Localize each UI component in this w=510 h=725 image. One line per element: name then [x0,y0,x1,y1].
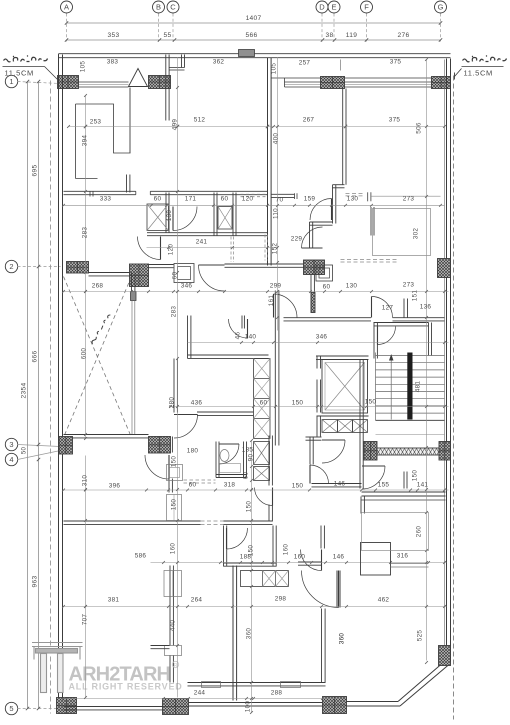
svg-text:141: 141 [417,482,429,489]
dimline x277 [277,58,279,331]
dim text 375 [389,117,401,124]
dim text 188 [240,554,252,561]
node grid-F bubble [361,1,373,13]
svg-text:298: 298 [275,596,287,603]
door hall kitchen west [274,294,298,318]
door wc 171 [173,207,197,231]
svg-text:268: 268 [92,283,104,290]
wall bath318 south [216,475,247,478]
dim text 512 [194,117,206,124]
dim text 150 [246,501,253,513]
shaft lower2 [254,467,270,481]
door 436 [174,415,198,439]
svg-text:360: 360 [339,633,346,645]
wall 302 vert [371,207,374,236]
column lightwell-east 34 [149,437,171,454]
dim text 159 [304,196,316,203]
stair treads [376,353,445,421]
svg-text:60: 60 [189,482,197,489]
wall hall east stub [311,275,315,313]
dimline y126 [69,125,445,128]
dim text 136 [420,304,432,311]
svg-text:499: 499 [172,119,179,131]
wall 260room west [361,497,364,514]
svg-text:707: 707 [82,614,89,626]
duct grid2 [174,264,194,283]
label joint-left 11.5CM [5,69,34,78]
dim text 160 [294,554,306,561]
dim text 119 [346,32,357,39]
svg-text:180: 180 [187,448,199,455]
svg-text:160: 160 [170,543,177,555]
svg-text:436: 436 [191,400,203,407]
wall bottom right [347,702,401,707]
svg-text:140: 140 [245,334,257,341]
dim text 707 [82,614,89,626]
dim row 1407 line [65,21,442,24]
dim text 310 [82,475,89,487]
svg-text:525: 525 [417,630,424,642]
svg-text:1407: 1407 [246,15,262,22]
svg-text:146: 146 [333,554,345,561]
svg-text:127: 127 [382,305,394,312]
wall corr east seg [310,437,313,465]
dim text 481 [415,381,422,393]
dim text 2354 [21,383,28,399]
closet 264 b [165,646,182,656]
dim text 151 [412,290,419,302]
wall 436 west [174,359,177,413]
dim text 436 [191,400,203,407]
door 396 [145,455,169,479]
svg-text:150: 150 [246,501,253,513]
stair center wall [407,353,412,420]
column stairwall right [439,442,451,461]
svg-text:375: 375 [389,117,401,124]
svg-text:130: 130 [347,196,359,203]
wall bath318 west [216,442,219,478]
wall corr west [275,291,279,446]
dim text 333 [100,196,112,203]
wall chamfer [398,661,449,706]
dim text 150 [412,470,419,482]
dim text 273 [403,282,415,289]
svg-text:A: A [64,3,69,12]
svg-text:346: 346 [316,334,328,341]
dim text 396 [109,483,121,490]
wire grid-4 leader [18,451,61,460]
wall top parapet block [239,50,255,57]
dim text 299 [270,283,282,290]
duct wc 60room [218,207,232,230]
dim row2 line [65,38,442,41]
dim text 60 [189,482,197,489]
wire grid-D leader [321,14,323,42]
svg-text:171: 171 [185,196,197,203]
svg-text:383: 383 [107,59,119,66]
counter 396 b [167,495,182,521]
dimline y562 [151,562,447,564]
wall nook stub [242,316,244,329]
label joint-left arabic [4,55,48,62]
door 298 entry [302,571,341,608]
wire grid-2 leader [18,266,61,268]
wall bottom porch [189,703,323,707]
svg-text:260: 260 [416,526,423,538]
svg-text:462: 462 [378,597,390,604]
svg-text:586: 586 [135,553,147,560]
dim text 280 [169,397,176,409]
dim text 253 [90,119,102,126]
dim text 60 [172,272,179,280]
column grid G1 [432,77,451,89]
svg-text:155: 155 [378,482,390,489]
svg-text:481: 481 [415,381,422,393]
dim text 241 [196,239,208,246]
wall corr east [317,357,321,413]
svg-text:100: 100 [245,701,252,713]
svg-text:375: 375 [390,59,402,66]
dim text 302 [413,228,420,240]
boundary line bed1 [368,192,441,201]
svg-text:5: 5 [9,704,13,713]
wall central vertical lower [233,566,237,701]
svg-text:316: 316 [397,553,409,560]
column stairwall left [364,442,377,461]
wall jog B-C [166,55,185,121]
dim text 60 [243,472,250,480]
wall under127 b [393,318,445,321]
duct wc [147,204,169,231]
wire grid-C leader [172,14,174,42]
wall mid south [64,521,201,524]
dim text 150 [248,545,255,557]
wall wc mid2 [233,193,236,236]
lightwell label [89,314,112,344]
dimline x85 [85,96,87,698]
svg-text:244: 244 [194,690,206,697]
dim text 185 [242,447,254,454]
svg-text:38: 38 [326,32,334,39]
wall left [59,55,63,698]
dim text 695 [32,165,39,177]
dim text 1407 [246,15,262,22]
svg-text:963: 963 [32,576,39,588]
dim text 273 [403,196,415,203]
door 188 [227,528,248,549]
svg-text:188: 188 [240,554,252,561]
door hall440 [255,488,273,506]
elevator cab [322,360,368,414]
door kitchen nook [229,319,248,338]
svg-text:1: 1 [9,77,13,86]
dim text 400 [273,133,280,145]
fixture bath318 sink [220,450,241,473]
closet room1 [76,104,131,179]
svg-text:353: 353 [108,32,120,39]
dim text 150 [171,499,178,511]
svg-text:55: 55 [164,32,172,39]
svg-text:150: 150 [412,470,419,482]
dim text 150 [292,400,304,407]
svg-text:381: 381 [108,597,120,604]
stair arrow [389,354,394,420]
svg-text:3: 3 [9,440,13,449]
dim text 90 [248,454,255,462]
wall 188 south [224,563,277,566]
svg-text:273: 273 [403,282,415,289]
door room southwest [322,440,345,463]
column grid A5 [57,698,77,714]
door kitchen127 [372,297,393,318]
svg-text:333: 333 [100,196,112,203]
dim text 499 [172,119,179,131]
svg-text:310: 310 [82,475,89,487]
wire grid-3 leader [18,445,61,447]
wall elevator north [316,356,369,359]
logo mark [32,643,83,693]
svg-text:394: 394 [82,135,89,147]
label joint-right leader [455,67,504,80]
svg-text:400: 400 [273,133,280,145]
wall hall440 lower [269,505,272,522]
shaft strip center [254,359,271,439]
door stair south [362,466,385,489]
svg-text:566: 566 [246,32,258,39]
dim text 155 [378,482,390,489]
lightwell wall east [131,273,137,301]
svg-text:B: B [156,3,161,12]
wall 264 west lower [170,656,173,683]
svg-text:283: 283 [82,227,89,239]
dim text 161 [268,295,275,307]
svg-text:299: 299 [270,283,282,290]
dim text 120 [242,196,254,203]
label joint-right 11.5CM [464,69,493,78]
node grid-B bubble [153,1,165,13]
dimline x177 [177,58,179,698]
wall hall-bed1 [272,193,298,199]
column bottom mid-left [163,699,189,715]
wall 264 west [170,566,173,646]
svg-text:360: 360 [246,628,253,640]
wall wc mid1 [214,193,217,236]
svg-text:273: 273 [403,196,415,203]
door bath318 [219,444,239,464]
wall right [447,59,451,663]
svg-text:150: 150 [365,399,377,406]
svg-text:666: 666 [32,351,39,363]
dim text 120 [168,244,175,256]
dim text 257 [299,60,311,67]
wire grid-G leader [440,14,442,42]
svg-text:120: 120 [242,196,254,203]
dim text 105 [271,63,278,75]
wall kitchen nook west [188,316,191,359]
node grid-5 bubble [5,702,17,714]
wall 229 north [310,222,333,225]
lightwell X [64,277,132,438]
wall 188 east [273,526,276,567]
wire grid-A leader [66,14,68,42]
svg-text:440: 440 [170,620,177,632]
dim text 150 [365,399,377,406]
dimline x251 [251,441,253,713]
svg-text:11.5CM: 11.5CM [464,69,493,78]
dim text 283 [171,306,178,318]
table 316 [361,543,391,576]
dashed jamb x232 [231,237,234,263]
dim text 130 [347,196,359,203]
wall mid south b [224,521,273,524]
dim text 110 [273,208,280,219]
dim text 506 [416,122,423,134]
door wc 120 [138,237,161,260]
wall 396 east lower [169,479,172,493]
svg-text:695: 695 [32,165,39,177]
dim text 283 [82,227,89,239]
svg-text:R: R [174,663,178,669]
wire grid-1 leader [18,82,61,84]
rect 260 room [362,513,429,551]
svg-text:110: 110 [273,208,280,219]
svg-text:2: 2 [9,262,13,271]
svg-text:253: 253 [90,119,102,126]
wall lightwell south [64,435,149,438]
svg-text:105: 105 [80,61,87,73]
node grid-D bubble [316,1,328,13]
wall grid2 b [149,265,174,268]
dim text 60 [323,284,331,291]
wall wc left [166,193,169,233]
svg-text:318: 318 [224,482,236,489]
svg-text:241: 241 [196,239,208,246]
node grid-3 bubble [5,438,17,450]
closet 264 a [164,571,182,597]
dimline y247 [147,247,278,249]
column grid A34 [59,437,73,455]
wall front window right [285,78,432,87]
column grid D2 [304,260,325,275]
dim text 462 [378,597,390,604]
dim text 160 [170,543,177,555]
wall stair east jog [429,323,432,356]
svg-text:150: 150 [171,456,178,468]
dim text 130 [166,210,173,222]
svg-text:600: 600 [81,348,88,360]
dim text 276 [398,32,410,39]
svg-text:C: C [170,3,176,12]
duct grid2 right [316,265,333,281]
svg-text:130: 130 [166,210,173,222]
dim text 146 [333,554,345,561]
wall stub left room divider [127,175,130,193]
wall grid1-horizontal [64,191,136,197]
wall lightwell north [89,273,132,276]
label joint-left underline [3,67,58,80]
dim text 381 [108,597,120,604]
svg-text:264: 264 [191,597,203,604]
wire grid-E leader [333,14,335,42]
dim text 55 [164,32,172,39]
svg-text:D: D [319,3,325,12]
svg-text:276: 276 [398,32,410,39]
column bottom mid-right [323,697,347,714]
dim text 298 [275,596,287,603]
dim text 586 [135,553,147,560]
dimline y489 [64,489,449,491]
dashed beam bed1 [346,194,366,196]
table connector [391,564,429,568]
wall bedroom2 divider [343,89,346,185]
dim text 963 [32,576,39,588]
dim ticks [62,58,446,714]
wall stair south hatched [377,448,439,455]
svg-text:G: G [438,3,444,12]
svg-text:257: 257 [299,60,311,67]
wall right inner face [444,60,446,646]
dim text 100 [245,701,252,713]
dim text 105 [80,61,87,73]
wire grid-B leader [158,14,160,42]
svg-text:E: E [331,3,336,12]
node grid-E bubble [328,1,340,13]
svg-text:151: 151 [412,290,419,302]
svg-text:302: 302 [413,228,420,240]
elevator pit strip [322,420,368,433]
svg-text:105: 105 [271,63,278,75]
dim text 171 [185,196,197,203]
dimline y606 [64,606,447,608]
wall elevator bottom [317,415,369,417]
wall stair north [374,323,429,326]
svg-text:283: 283 [171,306,178,318]
dim text 346 [316,334,328,341]
svg-text:120: 120 [168,244,175,256]
svg-text:159: 159 [304,196,316,203]
column grid A1 [58,76,79,89]
svg-text:267: 267 [303,117,315,124]
svg-text:512: 512 [194,117,206,124]
wall lobby stub [404,472,407,489]
wall central vertical upper [268,58,272,266]
node grid-2 bubble [5,260,17,272]
wire grid-5 leader [18,708,61,710]
door stair entry [378,327,396,345]
svg-text:506: 506 [416,122,423,134]
wall 396 east [169,437,172,453]
dim text 140 [245,334,257,341]
wall 188 west [224,526,227,567]
dim text 127 [382,305,394,312]
wall corr east low [317,416,320,437]
dimline y406 [171,406,449,408]
dashes 480 [184,480,216,483]
dim text 353 [108,32,120,39]
door hall grid2 [199,265,225,291]
dim text 130 [346,283,358,290]
joint dashed line right [453,76,455,720]
wall 229 west [310,222,313,248]
node grid-C bubble [167,1,179,13]
dim text 152 [272,243,279,255]
wall stair west wall [374,323,377,359]
wall bottom left [64,707,164,710]
dim text 362 [213,59,225,66]
dimline y698 [64,698,341,700]
dim text 360 [246,628,253,640]
wall grid1-horizontal b [150,191,267,194]
